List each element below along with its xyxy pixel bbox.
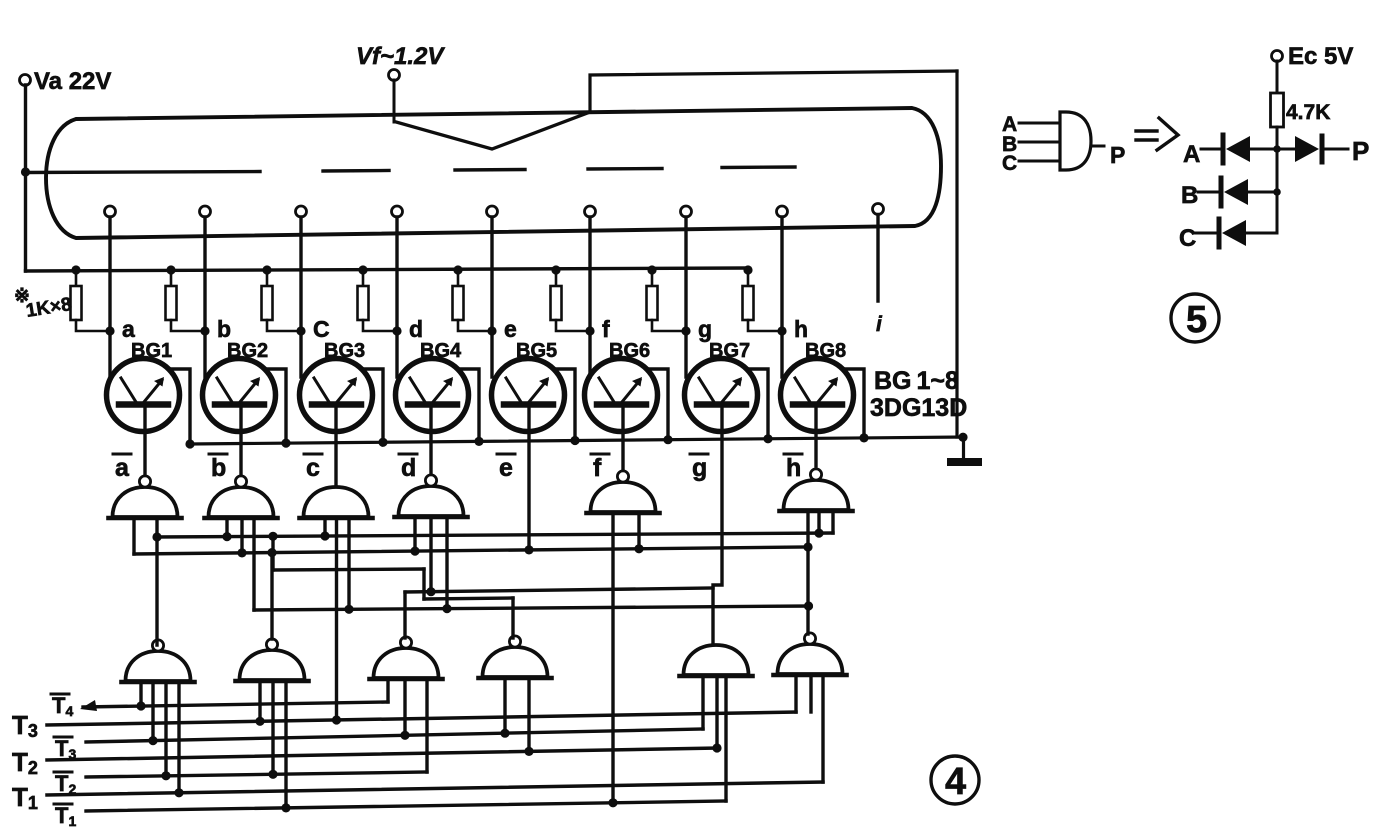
wire L3 left end up to L1 bbox=[271, 536, 274, 570]
node dot G2-column on L2 bbox=[267, 548, 276, 557]
input line T3 bbox=[47, 712, 796, 725]
node junction dot bbox=[161, 771, 170, 780]
diode DB bbox=[1221, 178, 1248, 206]
resistor R1 1K (pull-up) bbox=[71, 270, 111, 331]
inversion bubble of NAND D (drives d-bar) bbox=[425, 475, 436, 486]
node junction dot bbox=[320, 531, 329, 540]
node junction dot bbox=[426, 587, 435, 596]
wire NAND-G3 output bubble up to L4 bbox=[403, 592, 406, 638]
pin terminal circle of tube segment f bbox=[585, 206, 596, 217]
transistor Q BG3 3DG13D bbox=[300, 359, 373, 432]
wire AND output stub bbox=[1091, 145, 1104, 148]
wire distribution line L4b to NAND-G4 output bbox=[424, 598, 513, 599]
svg-text:e: e bbox=[504, 316, 517, 342]
wire NAND-G2 input to T3 bbox=[258, 681, 261, 721]
pin terminal circle of tube segment h bbox=[777, 206, 788, 217]
filament dashed segments inside tube bbox=[323, 169, 389, 173]
node dot A-row on column bbox=[1273, 145, 1281, 153]
svg-text:C: C bbox=[1179, 225, 1196, 252]
svg-text:b: b bbox=[217, 316, 231, 342]
node base-resistor junction dot g bbox=[681, 326, 690, 335]
wire pin C down to transistor BG3 collector bbox=[299, 217, 302, 377]
wire e-bar BG5 base long drop to line L2 bbox=[527, 408, 530, 550]
label h-bar (inverted segment signal) bbox=[784, 454, 802, 482]
wire diode DC to pull-up column bbox=[1246, 232, 1277, 235]
node base-resistor junction dot d bbox=[392, 326, 401, 335]
resistor bus from Va wire feeding 1K resistors bbox=[26, 268, 748, 271]
node junction dot bbox=[332, 715, 341, 724]
svg-text:d: d bbox=[401, 454, 416, 482]
wire NAND-A left input to L2 corner bbox=[132, 518, 135, 554]
svg-text:T3: T3 bbox=[55, 736, 76, 762]
node junction dot bbox=[634, 544, 643, 553]
node junction dot bbox=[442, 604, 451, 613]
wire g-bar BG7 base long drop with jog to NAND-G5 apex bbox=[713, 408, 722, 645]
wire distribution line L4 bbox=[405, 588, 713, 592]
svg-text:T3: T3 bbox=[12, 710, 38, 741]
label f-bar (inverted segment signal) bbox=[591, 454, 609, 482]
svg-text:B: B bbox=[1181, 182, 1198, 209]
label b-bar (inverted segment signal) bbox=[209, 454, 227, 482]
diode DP output diode bbox=[1295, 136, 1322, 162]
wire tube top-edge tap up-over to right side rail bbox=[590, 71, 957, 112]
node junction dot resistor R8 on bus bbox=[743, 265, 752, 274]
node junction dot bbox=[174, 788, 183, 797]
wire pin d down to transistor BG4 collector bbox=[395, 217, 398, 377]
wire pin i stub bbox=[876, 215, 879, 302]
wire NAND-G5 input to T3-bar end bbox=[701, 676, 704, 729]
wire input B stub bbox=[1019, 141, 1060, 144]
wire NAND-B input 2 to L2 bbox=[240, 518, 243, 553]
op-gate NAND A (drives a-bar) bbox=[109, 487, 182, 518]
transistor Q BG8 3DG13D bbox=[781, 359, 854, 432]
inversion bubble of NAND G3 bbox=[400, 637, 411, 648]
equivalence double arrow bbox=[1136, 118, 1178, 150]
inversion bubble of NAND H (drives h-bar) bbox=[810, 469, 821, 480]
wire A to diode DA bbox=[1201, 148, 1219, 151]
node junction dot bbox=[410, 547, 419, 556]
svg-text:BG3: BG3 bbox=[324, 340, 365, 362]
svg-text:T4: T4 bbox=[52, 693, 73, 719]
transistor Q BG2 3DG13D bbox=[203, 359, 276, 432]
wire NAND-G2 input to T1-bar bbox=[284, 681, 287, 808]
svg-text:T2: T2 bbox=[55, 771, 76, 797]
filament line solid left segment bbox=[26, 172, 261, 173]
wire BG8 base down to NAND-H output bubble bbox=[814, 408, 817, 466]
wire Va terminal down to resistor bus bbox=[24, 85, 27, 271]
wire BG1 base down to NAND-A output bubble bbox=[143, 408, 146, 477]
wire NAND-A right input from NAND-G1 output bbox=[155, 518, 158, 645]
transistor Q BG7 3DG13D bbox=[685, 359, 758, 432]
inversion bubble of NAND G1 bbox=[152, 640, 163, 651]
svg-text:BG 1~8: BG 1~8 bbox=[874, 367, 959, 395]
label g-bar (inverted segment signal) bbox=[690, 454, 708, 482]
op-gate NAND G2 bbox=[236, 650, 309, 681]
figure number 5 in circle bbox=[1171, 294, 1219, 342]
pin terminal circle of tube segment b bbox=[200, 206, 211, 217]
wire pin a down to transistor BG1 collector bbox=[108, 217, 111, 377]
vacuum fluorescent display tube envelope bbox=[46, 108, 941, 238]
pin terminal circle i (grid) bbox=[873, 204, 884, 215]
op-gate NAND D (drives d-bar) bbox=[395, 486, 468, 517]
op-gate NAND G1 bbox=[122, 651, 195, 682]
svg-text:T1: T1 bbox=[12, 782, 38, 813]
node base-resistor junction dot h bbox=[777, 326, 786, 335]
wire NAND-F left input long drop to T1-bar line bbox=[611, 513, 614, 803]
wire L5 right end down joining NAND-G6 output column bbox=[809, 604, 812, 607]
node junction dot bbox=[136, 701, 145, 710]
node filament-left junction dot on Va wire bbox=[21, 167, 30, 176]
transistor Q BG5 3DG13D bbox=[492, 359, 565, 432]
wire NAND-B input 3 to L5 corner bbox=[252, 518, 255, 610]
label T4-bar bbox=[51, 693, 73, 719]
transistor Q BG4 3DG13D bbox=[396, 359, 469, 432]
node junction dot bbox=[524, 747, 533, 756]
node junction dot bbox=[237, 548, 246, 557]
node emitter junction dot BG2 bbox=[281, 439, 290, 448]
resistor R9 4.7K bbox=[1271, 93, 1284, 127]
node dot e-bar on L2 bbox=[524, 545, 533, 554]
wire NAND-G6 input to T3 end bbox=[794, 675, 797, 712]
pin terminal circle of tube segment a bbox=[105, 206, 116, 217]
wire emitter of BG2 to common bus bbox=[265, 369, 286, 443]
node dot B-row on column bbox=[1273, 188, 1281, 196]
wire distribution line L2 bbox=[134, 547, 808, 554]
label T3-bar bbox=[54, 736, 76, 762]
input line T3-bar bbox=[86, 729, 703, 742]
svg-text:T2: T2 bbox=[12, 747, 38, 778]
wire NAND-C input 2 long drop to T3 line bbox=[335, 518, 338, 720]
op-gate NAND G5 bbox=[680, 645, 753, 676]
diode DA bbox=[1223, 135, 1250, 163]
op-gate NAND H (drives h-bar) bbox=[780, 480, 853, 511]
terminal Vf ~1.2V bbox=[389, 70, 400, 81]
resistor R2 1K (pull-up) bbox=[166, 270, 206, 331]
pin terminal circle of tube segment g bbox=[681, 206, 692, 217]
wire BG6 base down to NAND-F output bubble bbox=[621, 408, 624, 470]
wire C to diode DC bbox=[1196, 232, 1215, 235]
transistor Q BG6 3DG13D bbox=[585, 359, 658, 432]
node base-resistor junction dot b bbox=[200, 326, 209, 335]
node base-resistor junction dot f bbox=[585, 326, 594, 335]
svg-text:c: c bbox=[306, 454, 320, 482]
node junction dot bbox=[814, 529, 823, 538]
svg-text:1K×8: 1K×8 bbox=[24, 294, 73, 322]
wire right side rail down to ground bus bbox=[955, 71, 958, 437]
wire NAND-G6 short middle input bbox=[809, 675, 812, 712]
svg-text:e: e bbox=[499, 454, 513, 482]
wire emitter of BG8 to common bus bbox=[843, 369, 864, 438]
svg-text:4: 4 bbox=[945, 761, 966, 803]
wire NAND-G4 input to T3-bar bbox=[503, 678, 506, 733]
resistor R7 1K (pull-up) bbox=[647, 270, 687, 331]
ground symbol bbox=[947, 437, 982, 466]
svg-text:Vf~1.2V: Vf~1.2V bbox=[356, 43, 445, 70]
node junction dot bbox=[222, 532, 231, 541]
svg-text:C: C bbox=[313, 316, 330, 342]
svg-text:BG5: BG5 bbox=[516, 340, 557, 362]
pin terminal circle of tube segment e bbox=[487, 206, 498, 217]
wire pin h down to transistor BG8 collector bbox=[780, 217, 783, 377]
svg-text:T1: T1 bbox=[55, 803, 76, 829]
wire emitter of BG5 to common bus bbox=[554, 369, 575, 441]
wire NAND-G1 input to T1 bbox=[177, 682, 180, 793]
node dot L3 on L1 bbox=[268, 532, 277, 541]
input line T2-bar bbox=[86, 772, 427, 777]
wire emitter of BG1 to common bus bbox=[169, 369, 190, 444]
wire pin b down to transistor BG2 collector bbox=[203, 217, 206, 377]
AND gate U1 of figure 5 bbox=[1060, 112, 1091, 170]
svg-text:C: C bbox=[1002, 152, 1017, 175]
inversion bubble of NAND G4 bbox=[509, 636, 520, 647]
wire NAND-G1 input to T2-bar bbox=[164, 682, 167, 776]
node junction dot resistor R5 on bus bbox=[453, 265, 462, 274]
input line T4-bar bbox=[83, 702, 388, 707]
wire BG2 base down to NAND-B output bubble bbox=[239, 408, 242, 474]
input line T2 bbox=[47, 748, 717, 760]
wire input A stub bbox=[1019, 122, 1060, 125]
resistor R8 1K (pull-up) bbox=[743, 270, 783, 331]
svg-text:g: g bbox=[698, 316, 712, 342]
label T3 bbox=[12, 710, 38, 741]
node junction dot resistor R7 on bus bbox=[647, 265, 656, 274]
wire pin f down to transistor BG6 collector bbox=[588, 217, 591, 377]
wire emitter of BG7 to common bus bbox=[747, 369, 768, 439]
wire NAND-G3 left input to T4-bar end bbox=[386, 679, 389, 702]
figure number 4 in circle bbox=[931, 756, 979, 804]
inversion bubble of NAND G6 bbox=[804, 633, 815, 644]
node junction dot bbox=[712, 743, 721, 752]
wire NAND-G1 input to T4-bar bbox=[139, 682, 142, 706]
svg-text:a: a bbox=[122, 316, 135, 342]
wire diode DB to pull-up column bbox=[1248, 191, 1277, 194]
node junction dot resistor R2 on bus bbox=[166, 265, 175, 274]
op-gate NAND F (drives f-bar) bbox=[587, 482, 660, 513]
node dot G6-column on L5 bbox=[804, 601, 813, 610]
node junction dot bbox=[268, 770, 277, 779]
svg-text:A: A bbox=[1183, 141, 1200, 168]
node junction dot bbox=[500, 729, 509, 738]
svg-text:BG7: BG7 bbox=[709, 340, 750, 362]
node junction dot resistor R6 on bus bbox=[551, 265, 560, 274]
resistor R3 1K (pull-up) bbox=[262, 270, 302, 331]
wire NAND-G2 input to T2-bar bbox=[271, 681, 274, 774]
wire diode DA to pull-up column bbox=[1250, 148, 1277, 151]
input line T1 bbox=[47, 782, 823, 795]
wire NAND-G2 output bubble up to L2 bbox=[270, 553, 273, 639]
wire NAND-D input 3 to L5 bbox=[445, 517, 448, 609]
wire pin e down to transistor BG5 collector bbox=[490, 217, 493, 377]
wire NAND-G6 input to T1 end bbox=[821, 675, 824, 782]
resistor R4 1K (pull-up) bbox=[358, 270, 398, 331]
label c-bar (inverted segment signal) bbox=[304, 454, 322, 482]
wire NAND-B input 1 to L1 bbox=[225, 518, 228, 537]
node junction dot bbox=[148, 736, 157, 745]
wire NAND-G6 output bubble up to NAND-H input crossing L2 L5 bbox=[806, 511, 809, 634]
label T2 bbox=[12, 747, 38, 778]
wire pin g down to transistor BG7 collector bbox=[684, 217, 687, 377]
svg-text:5: 5 bbox=[1186, 299, 1207, 341]
label T1 bbox=[12, 782, 38, 813]
op-gate NAND C (drives c-bar) bbox=[300, 487, 373, 518]
svg-text:h: h bbox=[786, 454, 801, 482]
wire NAND-D input 2 to L4 bbox=[429, 517, 432, 592]
svg-text:Ec 5V: Ec 5V bbox=[1288, 43, 1353, 70]
svg-text:BG8: BG8 bbox=[805, 340, 846, 362]
svg-text:BG4: BG4 bbox=[420, 340, 462, 362]
terminal Ec 5V bbox=[1272, 51, 1283, 62]
label T1-bar bbox=[54, 803, 76, 829]
svg-text:f: f bbox=[602, 316, 610, 342]
wire emitter of BG6 to common bus bbox=[647, 369, 668, 440]
node dot G6-column on L2 bbox=[803, 542, 812, 551]
op-gate NAND G6 bbox=[774, 644, 847, 675]
wire NAND-D input 1 to L2 bbox=[413, 517, 416, 551]
node bus-rail corner dot bbox=[958, 433, 967, 442]
wire B to diode DB bbox=[1198, 191, 1217, 194]
node emitter junction dot BG3 bbox=[378, 438, 387, 447]
op-gate NAND G3 bbox=[370, 648, 443, 679]
node base-resistor junction dot C bbox=[296, 326, 305, 335]
label d-bar (inverted segment signal) bbox=[399, 454, 417, 482]
resistor R6 1K (pull-up) bbox=[551, 270, 591, 331]
node emitter junction dot BG8 bbox=[859, 433, 868, 442]
inversion bubble of NAND F (drives f-bar) bbox=[617, 471, 628, 482]
wire NAND-G4 output bubble up to L4b bbox=[511, 598, 514, 638]
svg-text:g: g bbox=[692, 454, 707, 482]
op-gate NAND B (drives b-bar) bbox=[205, 487, 278, 518]
node junction dot bbox=[344, 605, 353, 614]
label T2-bar bbox=[54, 771, 76, 797]
terminal Va 22V bbox=[20, 75, 31, 86]
svg-text:P: P bbox=[1352, 136, 1369, 166]
node junction dot bbox=[255, 717, 264, 726]
node junction dot resistor R3 on bus bbox=[262, 265, 271, 274]
tube getter notch below top edge bbox=[396, 112, 590, 149]
wire column to diode DP bbox=[1277, 148, 1295, 151]
wire NAND-C input 3 to L5 bbox=[347, 518, 350, 609]
node emitter junction dot BG6 bbox=[663, 435, 672, 444]
node emitter junction dot BG7 bbox=[763, 434, 772, 443]
wire NAND-G3 input to T3-bar bbox=[403, 679, 406, 735]
node junction dot bbox=[152, 532, 161, 541]
wire distribution line L1 bbox=[155, 533, 833, 537]
svg-text:P: P bbox=[1110, 142, 1125, 168]
svg-text:b: b bbox=[211, 454, 226, 482]
wire NAND-G4 input to T2 bbox=[527, 678, 530, 751]
diode DC bbox=[1219, 219, 1246, 247]
svg-text:3DG13D: 3DG13D bbox=[870, 394, 967, 422]
svg-text:a: a bbox=[115, 454, 130, 482]
svg-text:f: f bbox=[593, 454, 602, 482]
node junction dot resistor R1 on bus bbox=[71, 265, 80, 274]
wire diode DP to output P bbox=[1322, 148, 1348, 151]
node emitter junction dot BG1 bbox=[185, 439, 194, 448]
wire Vf terminal down to tube top bbox=[393, 80, 396, 122]
svg-text:BG6: BG6 bbox=[609, 340, 650, 362]
pin terminal circle of tube segment d bbox=[392, 206, 403, 217]
node junction dot bbox=[400, 731, 409, 740]
svg-text:4.7K: 4.7K bbox=[1286, 101, 1330, 124]
node junction dot bbox=[281, 803, 290, 812]
node base-resistor junction dot a bbox=[105, 326, 114, 335]
wire NAND-G5 input to T2 end bbox=[715, 676, 718, 748]
wire distribution line L3 bbox=[273, 569, 424, 570]
wire NAND-G3 input to T2-bar end bbox=[425, 679, 428, 772]
svg-text:i: i bbox=[876, 313, 883, 336]
transistor Q BG1 3DG13D bbox=[107, 359, 180, 432]
pin terminal circle of tube segment C bbox=[296, 206, 307, 217]
label e-bar (inverted segment signal) bbox=[497, 454, 515, 482]
inversion bubble of NAND B (drives b-bar) bbox=[235, 476, 246, 487]
wire NAND-G5 input to T1-bar end bbox=[724, 676, 727, 801]
wire input C stub bbox=[1019, 160, 1060, 163]
wire L3 right end step down to L4b bbox=[422, 569, 425, 599]
svg-text:BG2: BG2 bbox=[227, 340, 268, 362]
resistor R5 1K (pull-up) bbox=[453, 270, 493, 331]
op-gate NAND G4 bbox=[479, 647, 552, 678]
wire distribution line L5 bbox=[254, 606, 811, 610]
wire NAND-C input 1 to L1 bbox=[323, 518, 326, 536]
node emitter junction dot BG4 bbox=[474, 437, 483, 446]
wire emitter of BG4 to common bus bbox=[458, 369, 479, 441]
input line T1-bar bbox=[86, 801, 726, 811]
wire BG4 base down to NAND-D output bubble bbox=[429, 408, 432, 473]
wire BG3 base down to NAND-C output bbox=[334, 408, 337, 487]
common emitter / ground bus bbox=[190, 437, 964, 444]
svg-text:Va 22V: Va 22V bbox=[34, 68, 111, 95]
label a-bar (inverted segment signal) bbox=[113, 454, 131, 482]
wire pull-up column from resistor down to diode C row bbox=[1276, 127, 1279, 233]
wire L1 right end up into NAND-H input bbox=[831, 511, 834, 533]
wire NAND-F right input to L2 bbox=[637, 513, 640, 549]
wire NAND-G1 input to T3-bar bbox=[151, 682, 154, 741]
svg-text:d: d bbox=[409, 316, 423, 342]
node junction dot bbox=[608, 798, 617, 807]
node junction dot resistor R4 on bus bbox=[358, 265, 367, 274]
node base-resistor junction dot e bbox=[487, 326, 496, 335]
inversion bubble of NAND G2 bbox=[266, 639, 277, 650]
wire NAND-H middle input to L1 bbox=[817, 511, 820, 533]
node emitter junction dot BG5 bbox=[570, 436, 579, 445]
inversion bubble of NAND A (drives a-bar) bbox=[139, 476, 150, 487]
arrowhead at T4-bar line start bbox=[80, 700, 97, 711]
wire Ec terminal to resistor bbox=[1276, 61, 1279, 93]
svg-text:h: h bbox=[794, 316, 808, 342]
wire emitter of BG3 to common bus bbox=[362, 369, 383, 442]
svg-text:BG1: BG1 bbox=[131, 340, 172, 362]
